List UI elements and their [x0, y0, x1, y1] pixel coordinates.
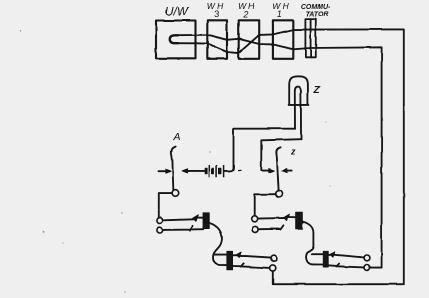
stray dash right of battery bend — [238, 169, 241, 171]
relay BR lower contact spring — [328, 264, 364, 268]
relay TL upper contact spring — [163, 218, 204, 221]
wire lamp right lead to switch z contact arrow — [261, 139, 301, 170]
svg-text:Z: Z — [313, 85, 321, 96]
relay BR lower terminal circle — [364, 265, 370, 271]
box WH1 — [273, 20, 293, 59]
relay TL lower terminal circle — [157, 227, 163, 233]
svg-text:TATOR: TATOR — [306, 12, 329, 19]
relay BL lower contact spring — [233, 263, 270, 268]
relay TL upper terminal circle — [157, 218, 163, 224]
wire switch z circle to relay TR upper terminal — [255, 194, 276, 216]
svg-text:3: 3 — [214, 9, 219, 19]
lamp filament loop — [295, 87, 301, 140]
relay TR actuator bar — [296, 212, 303, 229]
svg-text:U/W: U/W — [165, 5, 190, 19]
terminal circle under switch A — [172, 190, 179, 197]
switch z armature with hook — [276, 147, 280, 190]
wire upper from winding through wheels to inner right vertical — [177, 35, 382, 268]
relay BL actuator bar — [227, 251, 233, 269]
wire relay TL to relay BL (curve) — [209, 223, 226, 265]
svg-text:1: 1 — [277, 9, 282, 19]
wire battery to switch A with arrowhead — [185, 170, 205, 172]
relay BR actuator bar — [323, 251, 328, 267]
wire lamp left lead to battery positive — [224, 129, 295, 171]
floating arrow right of switch z — [286, 170, 292, 172]
relay TL actuator bar — [203, 213, 209, 229]
svg-text:z: z — [290, 147, 296, 157]
box U/W — [156, 21, 196, 59]
relay TR lower terminal circle — [252, 226, 258, 232]
paper specks — [20, 30, 331, 293]
relay BL upper contact spring — [233, 255, 272, 257]
relay TR lower contact spring — [258, 225, 283, 229]
battery A cells — [205, 166, 223, 177]
svg-text:A: A — [172, 131, 180, 143]
arrowhead toward switch z (left side) — [269, 169, 274, 173]
relay TR upper terminal circle — [252, 216, 258, 222]
switch A armature with hook — [171, 147, 175, 190]
relay BL lower terminal circle — [270, 265, 276, 271]
commutator — [305, 19, 315, 57]
terminal circle under switch z — [276, 191, 283, 198]
svg-text:2: 2 — [242, 10, 248, 20]
relay BR upper terminal circle — [364, 255, 370, 261]
svg-text:COMMU-: COMMU- — [301, 4, 331, 11]
wire lower from winding crossing in WH2 to outer right vertical and bottom bus — [177, 29, 404, 284]
lamp Z bulb outline — [289, 76, 309, 105]
relay TR upper contact spring — [258, 217, 296, 219]
floating arrow left of switch A — [159, 170, 167, 172]
relay BL upper terminal circle — [271, 255, 277, 261]
wire switch A circle to relay TL upper terminal — [159, 193, 172, 218]
relay BR upper contact spring — [328, 255, 364, 258]
box WH3 — [207, 20, 227, 59]
relay TL lower contact spring — [163, 226, 204, 231]
winding hairpin loop inside U/W — [170, 35, 178, 43]
wire relay TR to relay BR (curve) — [303, 222, 324, 265]
box WH2 — [239, 20, 260, 59]
